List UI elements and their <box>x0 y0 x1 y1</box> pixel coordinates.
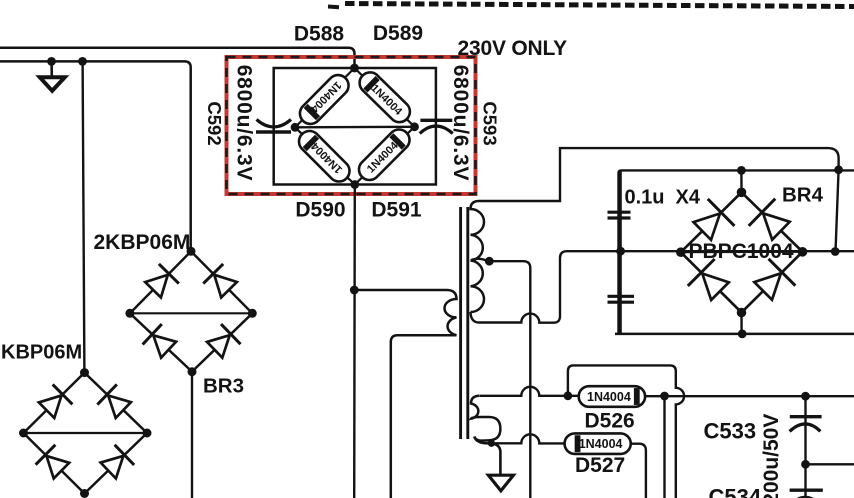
svg-text:BR4: BR4 <box>782 184 824 207</box>
BR5 (KBP06M) junction dots at vertices <box>19 368 152 498</box>
wire D527 cathode down <box>631 444 646 498</box>
junction dot D526 cathode node <box>660 392 669 401</box>
diode D588 cathode band <box>306 106 318 118</box>
capacitor C-X4b plate 1 <box>608 295 635 298</box>
capacitor C533 straight plate <box>790 415 822 418</box>
BR5 (KBP06M) diode bottom-left <box>36 445 70 479</box>
junction dot D526 anode node <box>564 391 573 400</box>
diode D590 package body <box>299 131 349 181</box>
BR4 (PBPC1004) diode bottom-right <box>754 259 795 300</box>
diode D527 package body <box>565 433 631 454</box>
junction dot C533 bottom node <box>801 460 810 469</box>
ground G1 symbol <box>40 77 65 91</box>
svg-text:6800u/6.3V: 6800u/6.3V <box>449 65 472 182</box>
capacitor C-X4a plate 1 <box>608 211 631 214</box>
wire from diamond bottom down left side of transformer <box>353 185 356 498</box>
wire through X4 capacitors <box>619 170 621 334</box>
wire C533 branch <box>804 396 806 498</box>
BR5 (KBP06M) diode top-left <box>39 384 73 418</box>
diode D527 cathode band <box>575 435 581 452</box>
diode D589 cathode band <box>365 78 377 90</box>
svg-text:1N4004: 1N4004 <box>587 390 631 404</box>
wire + transformer primary winding T1 left <box>356 290 457 498</box>
svg-text:X4: X4 <box>676 187 701 209</box>
capacitor C-X4a plate 2 <box>608 216 631 219</box>
svg-text:KBP06M: KBP06M <box>1 342 82 364</box>
BR4 (PBPC1004) junction dots at vertices <box>676 188 807 318</box>
diode D591 cathode band <box>391 135 403 147</box>
wire secondary S1 top to BR4 top rail <box>479 148 839 201</box>
wire S2 top to D526 (hops over tap wire) <box>480 387 579 396</box>
junction dot diamond bottom <box>350 180 359 189</box>
svg-text:D588: D588 <box>294 23 345 46</box>
BR4 block right edge segment <box>836 170 839 252</box>
capacitor C593 straight plate <box>420 119 452 122</box>
svg-text:D526: D526 <box>585 410 635 433</box>
svg-text:0.1u: 0.1u <box>625 187 665 209</box>
BR3 (2KBP06M) junction dots at vertices <box>125 247 256 376</box>
BR5 (KBP06M) diode bottom-right <box>101 445 135 479</box>
junction dot BR4 stem on bottom rail <box>738 330 747 339</box>
svg-text:C533: C533 <box>704 419 757 444</box>
diode D591 package body <box>359 130 409 180</box>
junction dot diamond left <box>291 123 300 132</box>
junction dot top rail right hook <box>834 165 843 174</box>
capacitor C534 straight plate <box>790 489 823 492</box>
svg-text:D527: D527 <box>575 454 625 477</box>
wire S2 bottom to D527 (hops over tap wire) <box>491 434 564 443</box>
bridge rectifier BR4 (PBPC1004) diamond outline <box>681 192 803 312</box>
svg-text:230V ONLY: 230V ONLY <box>458 37 568 60</box>
junction dot C533 top <box>801 392 810 401</box>
junction dot BR4 stem on top rail <box>737 166 746 175</box>
ground G1 stem <box>50 61 53 77</box>
svg-text:6800u/6.3V: 6800u/6.3V <box>233 65 256 182</box>
wire secondary S1 bottom to BR4 middle rail (hops over tap wire) <box>471 251 854 323</box>
BR3 (2KBP06M) diode top-left <box>145 264 179 298</box>
svg-text:D589: D589 <box>373 22 423 45</box>
transformer T1 core line 2 <box>466 207 469 439</box>
BR4 (PBPC1004) diode top-right <box>749 199 790 240</box>
wire across middle of diode diamond <box>295 126 415 129</box>
BR4 (PBPC1004) diode bottom-left <box>688 259 729 300</box>
wire from dot B down to KBP06M bridge <box>83 61 85 372</box>
svg-text:C592: C592 <box>204 101 225 145</box>
junction dot B on second rail <box>78 57 87 66</box>
svg-text:D590: D590 <box>295 199 345 222</box>
junction dot X4 wire on middle rail <box>616 247 625 256</box>
junction dot center tap <box>485 257 494 266</box>
junction dot A on second rail <box>47 57 56 66</box>
BR3 (2KBP06M) diode bottom-left <box>143 324 176 358</box>
bypass loop wire over D526 <box>568 365 684 498</box>
diode D588 package body <box>300 75 349 124</box>
wire second rail (left) <box>0 61 191 251</box>
transformer T1 core line 1 <box>459 207 462 439</box>
diode D590 cathode band <box>305 137 317 149</box>
junction dot S2 / ground <box>488 440 495 447</box>
BR3 (2KBP06M) diode top-right <box>203 264 237 298</box>
svg-text:BR3: BR3 <box>203 375 244 398</box>
wire D526 cathode to right edge <box>645 395 854 397</box>
BR5 (KBP06M) middle wire (AC nodes) <box>24 432 148 434</box>
red annotation box around D588-D591 / C592 / C593 <box>227 57 476 194</box>
BR4 (PBPC1004) diode top-left <box>694 199 735 240</box>
BR3 (2KBP06M) diode bottom-right <box>207 324 241 358</box>
capacitor C533 curved plate <box>790 424 821 431</box>
ground G2 symbol <box>488 475 513 491</box>
bridge rectifier BR3 (2KBP06M) diamond outline <box>130 251 252 371</box>
capacitor C592 curved plate <box>257 120 292 128</box>
BR4 block frame left edge and top rail <box>619 170 854 334</box>
svg-text:2KBP06M: 2KBP06M <box>94 231 191 254</box>
capacitor C593 curved plate <box>420 126 453 134</box>
BR4 (PBPC1004) middle wire (AC nodes) <box>681 251 803 254</box>
svg-text:PBPC1004: PBPC1004 <box>689 240 794 263</box>
BR4 block bottom rail <box>615 333 854 336</box>
wire top rail to bridge top vertex (D588-D591 feed) <box>0 48 355 68</box>
junction dot transformer primary feed <box>350 286 359 295</box>
wire from D526 cathode node down <box>663 396 665 498</box>
transformer secondary winding S1 (top) <box>471 201 485 312</box>
svg-text:D591: D591 <box>371 199 422 222</box>
dashed separator line at top <box>328 4 854 8</box>
diode D526 cathode band <box>634 388 640 405</box>
bridge rectifier BR5 (KBP06M) diamond outline <box>24 373 148 494</box>
ground G2 stem <box>491 443 500 475</box>
BR5 (KBP06M) diode top-right <box>97 384 131 418</box>
wire BR3 bottom vertex down <box>191 372 193 498</box>
secondary S1 center tap wire <box>472 259 531 498</box>
BR3 (2KBP06M) middle wire (AC nodes) <box>130 312 252 314</box>
BR4 stem top <box>740 170 742 192</box>
diode D589 package body <box>360 72 410 122</box>
svg-text:C534: C534 <box>709 485 762 498</box>
secondary S2 end into ground junction <box>474 437 491 444</box>
inner rectangle frame of diode bridge block <box>274 68 436 185</box>
BR4 stem bottom <box>740 313 742 334</box>
diode D526 package body <box>579 386 645 407</box>
junction dot diamond right <box>410 122 419 131</box>
diamond connecting wires between D588/D589/D590/D591 <box>295 68 415 185</box>
transformer secondary winding S2 (bottom) <box>471 396 500 441</box>
wire from C533 bottom node to right edge <box>806 463 854 465</box>
capacitor C592 straight plate <box>256 130 291 133</box>
svg-text:1N4004: 1N4004 <box>579 437 623 451</box>
junction dot right edge to middle rail <box>831 247 840 256</box>
capacitor C-X4b plate 2 <box>608 301 635 304</box>
junction dot diamond top <box>350 64 359 73</box>
svg-text:C593: C593 <box>480 101 501 145</box>
svg-text:2200u/50V: 2200u/50V <box>760 414 783 498</box>
